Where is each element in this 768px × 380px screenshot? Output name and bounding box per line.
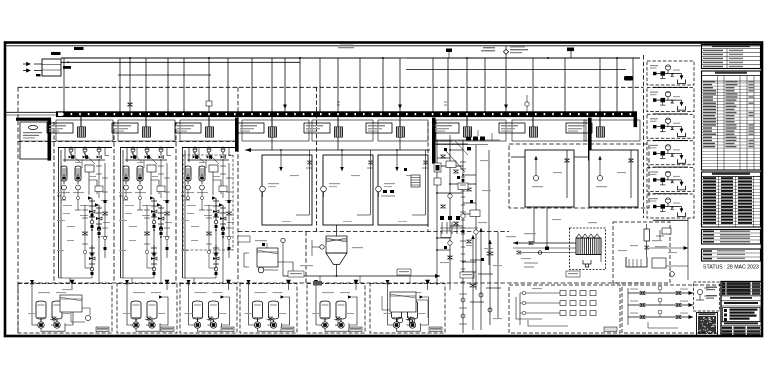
svg-text:STATUS : 28 MAC 2023: STATUS : 28 MAC 2023 bbox=[703, 265, 759, 271]
